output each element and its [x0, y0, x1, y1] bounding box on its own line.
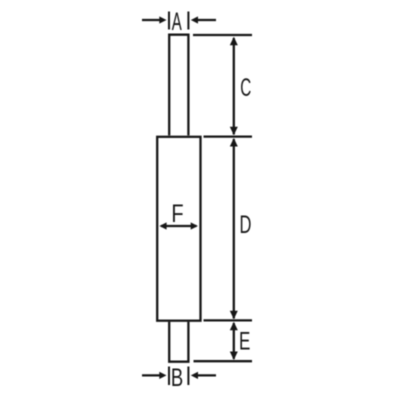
- dim B right tick: [187, 367, 189, 386]
- dim C line: [233, 38, 235, 135]
- dim A left arrow line: [142, 19, 161, 21]
- extension line pipe-bottom level: [194, 360, 253, 362]
- dim B left tick: [168, 367, 170, 386]
- dim D line: [233, 139, 235, 319]
- dim C top arrowhead: [230, 37, 238, 46]
- dim E line: [233, 323, 235, 359]
- outlet pipe: [169, 322, 188, 362]
- dim C bottom arrowhead: [230, 127, 238, 136]
- extension line pipe-top level: [193, 34, 252, 36]
- dim B left arrow line: [142, 374, 161, 376]
- dim F right arrowhead: [191, 222, 198, 229]
- svg-text:D: D: [240, 212, 252, 239]
- dim B right arrow line: [197, 374, 216, 376]
- svg-text:C: C: [240, 74, 251, 102]
- inlet pipe: [169, 35, 188, 136]
- dim F left arrowhead: [159, 222, 166, 229]
- dim D bottom arrowhead: [230, 311, 238, 320]
- dim F arrow line: [161, 225, 197, 227]
- extension line body-top level: [204, 135, 253, 137]
- svg-text:E: E: [239, 327, 250, 355]
- extension line body-bottom level: [204, 319, 253, 321]
- svg-text:F: F: [171, 200, 183, 228]
- dim A right arrow line: [197, 19, 216, 21]
- dim B left arrowhead: [159, 372, 166, 379]
- dim D top arrowhead: [230, 138, 238, 147]
- dim A left arrowhead: [159, 16, 166, 23]
- svg-text:A: A: [172, 8, 182, 36]
- dim A right arrowhead: [191, 16, 198, 23]
- dim E top arrowhead: [230, 322, 238, 331]
- dim A left tick: [168, 12, 170, 30]
- dim E bottom arrowhead: [230, 352, 238, 361]
- muffler body: [157, 137, 200, 321]
- dim B right arrowhead: [191, 372, 198, 379]
- dim A right tick: [187, 12, 189, 30]
- svg-text:B: B: [171, 363, 183, 391]
